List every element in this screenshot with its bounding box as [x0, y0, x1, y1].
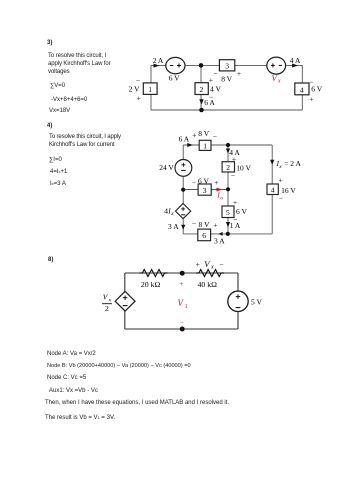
svg-text:+: +: [233, 198, 237, 207]
svg-text:6 A: 6 A: [179, 135, 190, 144]
svg-text:10 V: 10 V: [236, 164, 251, 173]
wire: circuit8 bottom: [125, 328, 238, 330]
svg-text:4: 4: [271, 185, 275, 194]
current label 4 A with arrow: [226, 148, 241, 157]
element box 3 (8 V): [214, 60, 242, 84]
svg-text:8 V: 8 V: [198, 129, 209, 138]
svg-text:+: +: [309, 95, 313, 104]
current label 6 A with arrow: [179, 135, 193, 147]
svg-text:V: V: [178, 298, 185, 308]
wire: circuit3 right: [301, 65, 303, 110]
problem 4 notes: [47, 122, 52, 130]
svg-text:1: 1: [148, 85, 152, 94]
element box 5 (6 V): [222, 198, 247, 224]
svg-text:1 A: 1 A: [230, 221, 241, 230]
junction dot circuit3 bottom middle: [199, 108, 204, 113]
svg-text:+: +: [179, 279, 183, 288]
element box 2 (10 V): [222, 154, 251, 179]
junction dot circuit8 top: [180, 271, 185, 276]
svg-text:20 kΩ: 20 kΩ: [141, 280, 161, 289]
wire: circuit8 left: [124, 273, 126, 329]
current label 6 A with arrow: [199, 98, 215, 107]
svg-text:16 V: 16 V: [281, 186, 296, 195]
svg-text:x: x: [170, 211, 174, 217]
svg-text:6 V: 6 V: [198, 177, 209, 186]
junction dot circuit4 bottom middle: [226, 232, 230, 236]
svg-text:3: 3: [203, 186, 207, 195]
svg-text:2: 2: [226, 163, 230, 172]
svg-text:+: +: [237, 69, 241, 78]
svg-text:5: 5: [226, 208, 230, 217]
svg-text:8 V: 8 V: [221, 74, 232, 83]
element box 6 (8 V): [192, 219, 218, 241]
element box 1 (8 V): [192, 129, 217, 150]
svg-text:6 V: 6 V: [169, 74, 180, 83]
svg-text:2: 2: [200, 85, 204, 94]
svg-text:−: −: [231, 171, 235, 180]
svg-text:+: +: [214, 178, 218, 187]
current label 3 A with arrow (left): [168, 222, 185, 231]
svg-text:1: 1: [203, 141, 207, 150]
svg-text:3 A: 3 A: [168, 222, 179, 231]
svg-text:6 V: 6 V: [236, 207, 247, 216]
svg-text:2 A: 2 A: [153, 56, 164, 65]
svg-text:+: +: [209, 75, 213, 84]
current label 1 A with arrow: [226, 221, 241, 230]
junction dot circuit8 bottom: [180, 327, 185, 332]
svg-text:3 A: 3 A: [214, 237, 225, 246]
wire: circuit4 middle vertical: [227, 145, 229, 234]
wire: circuit3 top: [151, 64, 302, 66]
svg-text:+: +: [279, 176, 283, 185]
svg-text:24 V: 24 V: [159, 163, 174, 172]
svg-text:4 A: 4 A: [290, 56, 301, 65]
svg-text:+: +: [196, 260, 200, 269]
svg-text:−: −: [214, 69, 218, 78]
svg-text:6 A: 6 A: [204, 98, 215, 107]
element box 3 (6 V): [192, 177, 219, 196]
svg-text:8 V: 8 V: [199, 220, 210, 229]
svg-text:+: +: [232, 154, 236, 163]
voltage source 24 V: [159, 160, 192, 177]
wire: circuit3 middle: [200, 65, 202, 110]
wire: circuit4 bottom: [183, 233, 272, 235]
resistor 20 kOhm: [140, 270, 168, 289]
svg-text:1: 1: [185, 304, 188, 310]
svg-text:−: −: [213, 132, 217, 141]
svg-text:5 V: 5 V: [251, 298, 262, 307]
svg-text:40 kΩ: 40 kΩ: [198, 280, 218, 289]
junction dot circuit4 top middle: [226, 143, 230, 147]
current label 2 A with arrow: [153, 56, 164, 68]
svg-text:x: x: [277, 79, 281, 85]
svg-text:−: −: [136, 76, 140, 85]
svg-text:2 V: 2 V: [129, 85, 140, 94]
voltage source 6 V: [166, 57, 185, 82]
wire: circuit4 right: [271, 145, 273, 234]
svg-text:−: −: [309, 77, 313, 86]
svg-text:+: +: [192, 131, 196, 140]
junction dot circuit3 top middle: [199, 63, 204, 68]
svg-text:−: −: [219, 260, 223, 269]
svg-text:x: x: [108, 297, 112, 303]
current label Io with red arrow: [216, 188, 223, 202]
wire: circuit3 left: [150, 65, 152, 110]
bottom notes: [47, 350, 96, 358]
problem 3 notes: [47, 39, 52, 47]
current label 4 A with arrow: [290, 56, 301, 67]
svg-text:−: −: [279, 193, 283, 202]
current label 3 A with arrow (bottom): [214, 232, 225, 246]
svg-text:x: x: [210, 264, 214, 270]
junction dot circuit4 mid left: [181, 188, 185, 192]
node voltage V1 markers (red): [178, 279, 188, 326]
problem 8 label: [48, 256, 53, 264]
element box 2 (4 V): [195, 75, 221, 101]
wire: circuit8 right: [237, 273, 239, 329]
svg-text:+: +: [213, 220, 217, 229]
wire: circuit4 left: [182, 145, 184, 234]
svg-text:o: o: [220, 196, 223, 202]
svg-text:+: +: [137, 94, 141, 103]
svg-text:−: −: [192, 219, 196, 228]
svg-text:4: 4: [300, 85, 304, 94]
dependent source Vx: [267, 57, 286, 85]
element box 4 (16 V): [267, 176, 296, 203]
dependent source Vx/2 diamond: [102, 291, 135, 313]
wire: circuit4 top: [183, 144, 272, 146]
resistor 40 kOhm: [196, 259, 224, 289]
element box 4 (6 V): [295, 77, 323, 103]
wire: circuit8 top: [125, 272, 238, 274]
svg-text:2: 2: [105, 304, 109, 313]
voltage source 5 V: [228, 291, 263, 311]
junction dot circuit4 mid right: [226, 187, 230, 191]
svg-text:−: −: [192, 177, 196, 186]
svg-text:x: x: [278, 164, 282, 170]
dependent source 4Ix diamond: [164, 204, 190, 219]
svg-text:3: 3: [225, 61, 229, 70]
wire: circuit3 bottom: [151, 109, 302, 111]
wire: circuit4 middle horizontal: [183, 189, 228, 191]
current label Ix = 2 A with arrow (right): [270, 159, 301, 170]
element box 1 (2 V): [129, 76, 158, 103]
svg-text:6: 6: [202, 231, 206, 240]
svg-text:= 2 A: = 2 A: [284, 159, 301, 168]
svg-text:−: −: [180, 317, 184, 326]
